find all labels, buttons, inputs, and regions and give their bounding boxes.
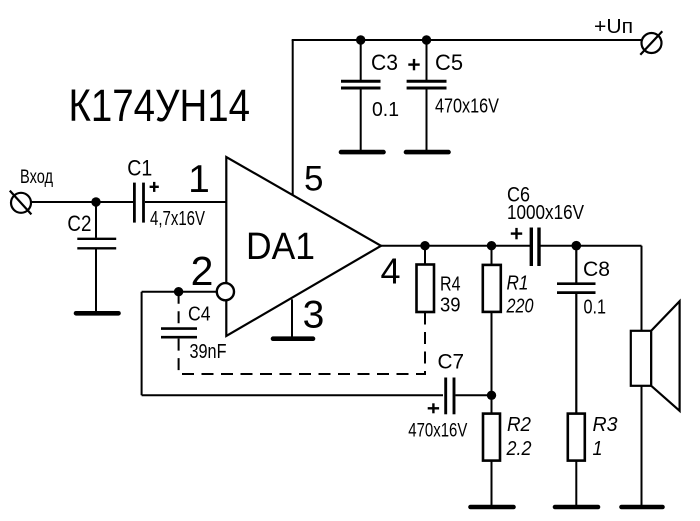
- capacitor C1: [127, 156, 205, 230]
- capacitor C7: [408, 350, 491, 441]
- resistor R2: [483, 395, 532, 505]
- ground of R2: [471, 505, 514, 510]
- wire output rail right of C6: [541, 245, 642, 247]
- wire feedback left vertical: [141, 292, 143, 396]
- node junction C8: [572, 241, 582, 251]
- ground of C2: [76, 311, 119, 316]
- svg-text:C5: C5: [435, 50, 463, 75]
- node junction C3 on rail: [356, 35, 365, 44]
- svg-text:4,7x16V: 4,7x16V: [150, 208, 205, 230]
- resistor R4: [417, 246, 461, 317]
- svg-text:C1: C1: [127, 156, 152, 181]
- svg-text:R3: R3: [593, 414, 618, 436]
- node junction R1: [487, 241, 496, 250]
- capacitor C4: [161, 292, 227, 374]
- wire pin 3 to ground: [291, 299, 293, 337]
- wire pin2 feedback horizontal: [142, 291, 217, 293]
- node A junction: [91, 197, 100, 206]
- resistor R1: [483, 246, 534, 318]
- svg-text:2.2: 2.2: [506, 438, 532, 460]
- node C junction (C7/R2): [487, 391, 496, 400]
- wire input connector to node A: [32, 201, 97, 203]
- ground of speaker: [622, 505, 663, 510]
- node B junction (pin2/C4): [174, 287, 183, 296]
- ground of pin 3: [273, 336, 313, 341]
- node junction C5 on rail: [422, 35, 431, 44]
- svg-text:R2: R2: [507, 414, 531, 436]
- svg-text:220: 220: [506, 296, 534, 318]
- svg-text:+Uп: +Uп: [594, 16, 633, 38]
- svg-text:0.1: 0.1: [372, 99, 399, 121]
- svg-text:R1: R1: [507, 273, 529, 295]
- svg-text:1000x16V: 1000x16V: [507, 202, 585, 224]
- svg-text:470x16V: 470x16V: [408, 420, 467, 442]
- svg-text:C8: C8: [583, 258, 610, 281]
- supply connector X2: [640, 31, 662, 55]
- dashed wire C4 corner to R4 bottom: [182, 312, 425, 374]
- ground of C5: [406, 150, 449, 155]
- capacitor C2: [67, 202, 116, 311]
- svg-text:C2: C2: [67, 211, 91, 236]
- op-amp DA1 triangle: [226, 157, 381, 336]
- ground of R3: [555, 505, 598, 510]
- svg-text:Вход: Вход: [20, 167, 53, 188]
- svg-text:5: 5: [304, 160, 323, 199]
- capacitor C6: [507, 184, 585, 267]
- speaker BA1: [631, 301, 680, 411]
- wire node A to C1: [96, 201, 134, 203]
- resistor R3: [568, 414, 618, 505]
- svg-text:3: 3: [303, 294, 325, 337]
- svg-text:2: 2: [191, 248, 214, 294]
- svg-text:39nF: 39nF: [190, 341, 227, 363]
- capacitor C3: [341, 40, 399, 150]
- capacitor C5: [407, 40, 500, 150]
- svg-text:R4: R4: [440, 274, 461, 296]
- wire speaker drop: [641, 246, 643, 331]
- pin 2 inverting input circle: [217, 283, 234, 300]
- wire feedback bottom horizontal to C7: [142, 394, 443, 396]
- wire R1 bottom to node C: [491, 312, 493, 395]
- wire output rail left of C6: [380, 245, 530, 247]
- capacitor C8: [557, 246, 610, 414]
- svg-text:C7: C7: [438, 350, 465, 373]
- input connector X1: [10, 191, 32, 215]
- svg-text:К174УН14: К174УН14: [69, 80, 251, 131]
- svg-text:39: 39: [440, 294, 461, 316]
- svg-text:DA1: DA1: [246, 226, 315, 268]
- wire C1 to pin 1: [145, 201, 226, 203]
- node junction R4: [420, 241, 429, 250]
- svg-text:470x16V: 470x16V: [435, 96, 500, 118]
- wire top supply rail: [292, 39, 642, 41]
- svg-text:1: 1: [188, 158, 210, 201]
- svg-text:4: 4: [380, 251, 400, 292]
- svg-text:C4: C4: [188, 304, 211, 326]
- ground of C3: [341, 150, 384, 155]
- svg-text:1: 1: [593, 438, 603, 460]
- svg-text:0.1: 0.1: [584, 297, 607, 319]
- svg-text:C3: C3: [371, 50, 398, 75]
- wire speaker to ground: [641, 386, 643, 505]
- wire pin 5 up: [292, 40, 294, 195]
